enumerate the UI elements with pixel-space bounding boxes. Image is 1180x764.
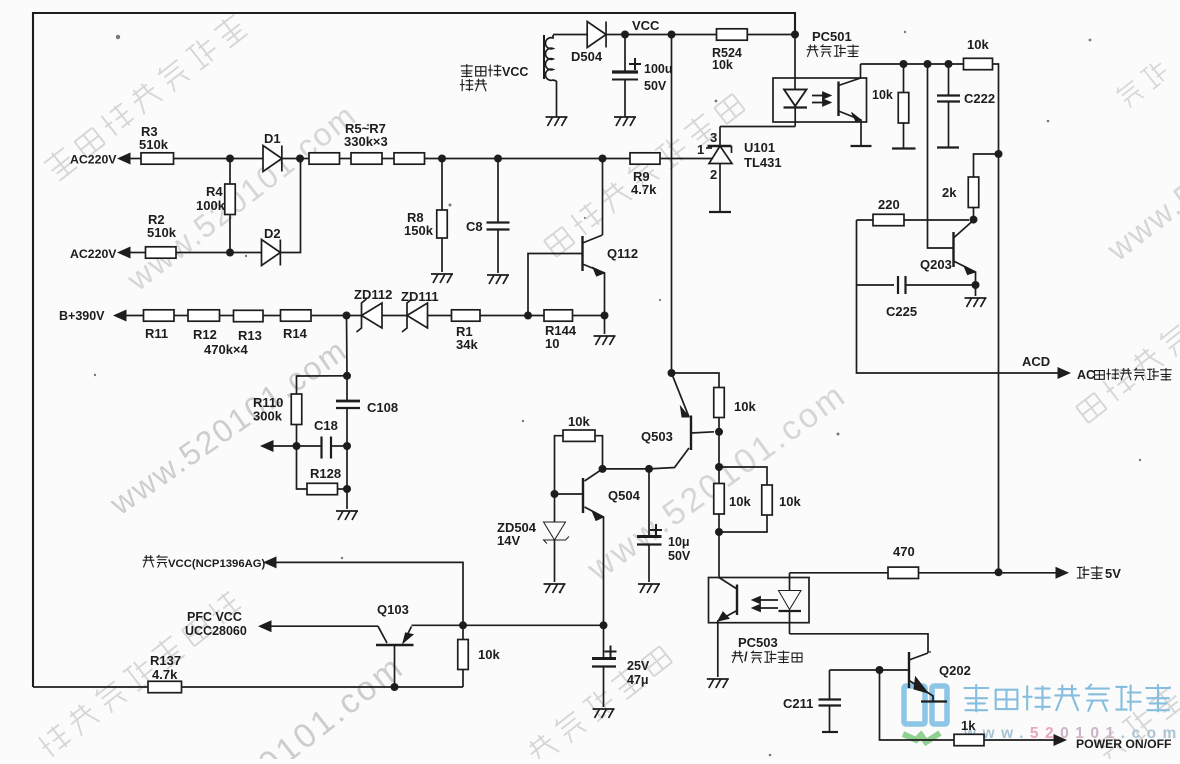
wire [718, 432, 720, 467]
wire 10k right down [595, 436, 603, 469]
resistor R14 [281, 310, 312, 321]
arrow AC220V top [117, 153, 131, 165]
resistor 10k vertical [898, 93, 909, 124]
label 保护光耦 (CJK) [807, 45, 859, 57]
transistor Q202 [880, 652, 934, 702]
wire to 25V cap [463, 624, 604, 626]
svg-text:47μ: 47μ [627, 673, 649, 687]
svg-text:D504: D504 [571, 49, 603, 64]
node VCC Q503 feed [668, 31, 676, 39]
svg-text:470k×4: 470k×4 [204, 342, 249, 357]
PC501 phototransistor [839, 64, 862, 146]
wire [263, 315, 281, 317]
node R3 R4 [226, 155, 234, 163]
svg-text:B+390V: B+390V [59, 309, 105, 323]
ground C8 [487, 275, 509, 284]
node D1 D2 join [296, 155, 304, 163]
wire ACD [857, 285, 1059, 373]
resistor R128 [307, 483, 338, 494]
ground R8 [431, 274, 453, 283]
svg-text:10k: 10k [568, 414, 590, 429]
resistor R4 [225, 184, 236, 215]
label 待机 (CJK) [1077, 566, 1102, 579]
wire [131, 158, 142, 160]
svg-text:POWER ON/OFF: POWER ON/OFF [1076, 737, 1171, 751]
arrow 待机5V [1056, 567, 1070, 579]
wire 2k to Q203 [973, 208, 975, 220]
resistor 220 [873, 214, 904, 225]
optocoupler PC503 box [709, 578, 810, 623]
svg-text:VCC: VCC [632, 18, 660, 33]
resistor 2k [968, 177, 979, 208]
arrow C18 output [260, 440, 274, 452]
logo book icon [904, 686, 947, 724]
arrow 背光VCC [263, 556, 277, 568]
PC503 phototransistor [718, 578, 737, 678]
node R4 R2 [226, 249, 234, 257]
svg-text:2k: 2k [942, 185, 957, 200]
wire 220 to Q203 collector [904, 219, 969, 221]
svg-text:14V: 14V [497, 533, 520, 548]
inductor winding coil [545, 35, 556, 81]
wire D1 out [282, 158, 309, 160]
wire VCC down rail [671, 35, 673, 374]
svg-text:Q504: Q504 [608, 488, 641, 503]
svg-text:470: 470 [893, 544, 915, 559]
label AC电压过低保护 (CJK) [1095, 368, 1172, 380]
svg-text:10k: 10k [779, 494, 801, 509]
node C108 top [343, 372, 351, 380]
svg-text:R4: R4 [206, 184, 223, 199]
wire to U101 cathode [719, 127, 721, 146]
capacitor C211 [819, 670, 842, 731]
node 25V cap [600, 621, 608, 629]
wire [428, 315, 452, 317]
resistor R3 [141, 153, 174, 164]
label 背光 (CJK) [143, 555, 167, 567]
wire R3 to D1 [174, 158, 264, 160]
terminal bar PC501 emitter [851, 145, 872, 147]
wire [229, 215, 231, 253]
ground 100u cap [614, 117, 636, 126]
wire [480, 315, 544, 317]
resistor R12 [188, 310, 220, 321]
wire to C225 [857, 220, 895, 285]
svg-text:ACD: ACD [1022, 354, 1050, 369]
wire to ground [604, 316, 606, 335]
node standby 5V [995, 568, 1003, 576]
arrow POWER ON/OFF [1054, 734, 1068, 746]
svg-text:U101: U101 [744, 140, 775, 155]
diode D2 [262, 240, 281, 266]
svg-text:4.7k: 4.7k [631, 182, 657, 197]
svg-text:C8: C8 [466, 219, 483, 234]
wire to C211 [830, 669, 880, 671]
wire [603, 468, 650, 470]
watermark 家电维修资料网 top-left [42, 12, 249, 183]
wire 10k left down [555, 436, 564, 494]
wire to R128 [297, 446, 308, 489]
resistor 10k Q504 [563, 430, 595, 441]
node Q112 base R144 [524, 312, 532, 320]
node Q203 base feed [924, 60, 932, 68]
ground ZD504 [544, 584, 566, 593]
svg-text:R11: R11 [145, 326, 168, 341]
wire C225 to emitter [906, 284, 976, 286]
wire R2 to D2 [176, 252, 262, 254]
svg-text:Q202: Q202 [939, 663, 971, 678]
ground winding [546, 117, 568, 126]
svg-text:ZD111: ZD111 [401, 289, 439, 304]
logo 家电维修资料网 teal text [964, 685, 1170, 712]
wire [718, 418, 720, 432]
wire [718, 467, 720, 484]
wire bottom left [33, 686, 148, 688]
svg-text:R14: R14 [283, 326, 308, 341]
wire [382, 315, 407, 317]
wire R7 to R9 [425, 158, 631, 160]
transistor Q112 [528, 159, 605, 316]
svg-text:50V: 50V [668, 549, 691, 563]
wire to R110 [297, 376, 348, 394]
wire VCC to PC501 LED [794, 35, 796, 90]
svg-text:330k×3: 330k×3 [344, 134, 388, 149]
svg-text:4.7k: 4.7k [152, 667, 178, 682]
node Q112 collector [599, 155, 607, 163]
node VCC cap junction [621, 31, 629, 39]
wire [220, 315, 234, 317]
resistor 10k right [762, 485, 773, 515]
svg-text:10k: 10k [478, 647, 500, 662]
svg-text:Q203: Q203 [920, 257, 952, 272]
watermark 家电维修资料网 right [1073, 322, 1180, 425]
ground 10u cap [638, 584, 660, 593]
zener ZD504 [544, 494, 570, 582]
arrow PFC VCC [258, 620, 272, 632]
wire [131, 252, 146, 254]
wire [573, 315, 605, 317]
svg-text:C108: C108 [367, 400, 398, 415]
wire to 10k right [719, 467, 767, 485]
zener ZD111 [402, 299, 428, 332]
svg-text:C225: C225 [886, 304, 917, 319]
diode D1 [263, 146, 282, 172]
logo green ribbon [903, 733, 940, 742]
wire PC501 LED to U101 [720, 126, 795, 128]
wire to 1k [880, 670, 955, 740]
resistor R9 [630, 153, 660, 164]
resistor R7 [394, 153, 425, 164]
wire bottom [182, 686, 464, 688]
capacitor 10u/50V [637, 469, 662, 582]
svg-text:Q503: Q503 [641, 429, 673, 444]
svg-text:50V: 50V [644, 79, 667, 93]
resistor 10k Q103 [458, 640, 469, 670]
watermark 家电维修资料网 bottom-left [35, 588, 244, 760]
wire VCC rail [606, 34, 717, 36]
label 开 (CJK) [732, 651, 743, 662]
svg-text:10k: 10k [712, 58, 733, 72]
diode D504 [587, 22, 606, 48]
node C18 C108 [343, 442, 351, 450]
terminal bar C222 [937, 146, 959, 148]
arrow ACD output [1058, 367, 1072, 379]
svg-text:C18: C18 [314, 418, 338, 433]
svg-text:R12: R12 [193, 327, 217, 342]
svg-text:10μ: 10μ [668, 535, 690, 549]
svg-text:2: 2 [710, 167, 717, 182]
svg-text:1k: 1k [961, 718, 976, 733]
svg-text:AC: AC [1077, 368, 1095, 382]
resistor R8 [437, 210, 448, 238]
node R110 bottom [293, 442, 301, 450]
wire to R8 [441, 159, 443, 211]
node R128 [343, 485, 351, 493]
zener ZD112 [357, 299, 383, 332]
wire [296, 425, 298, 447]
svg-text:3: 3 [710, 130, 717, 145]
svg-text:10k: 10k [872, 88, 893, 102]
wire right vertical rail [993, 64, 999, 572]
svg-text:UCC28060: UCC28060 [185, 624, 247, 638]
svg-text:TL431: TL431 [744, 155, 782, 170]
node Q504 base [551, 490, 559, 498]
arrow AC220V bottom [117, 247, 131, 259]
capacitor 100u/50V [612, 35, 641, 118]
resistor R137 [148, 681, 182, 692]
terminal bar Q202 emitter [921, 700, 947, 702]
wire [340, 158, 352, 160]
wire PFC VCC [272, 625, 379, 627]
ground Q203 emitter [965, 298, 987, 307]
wire [462, 670, 464, 688]
svg-text:R137: R137 [150, 653, 181, 668]
wire frame top/left border [33, 13, 795, 687]
wire 背光VCC [277, 562, 464, 625]
capacitor 25V/47u [592, 625, 617, 707]
wire [903, 123, 905, 149]
svg-text:510k: 510k [147, 225, 177, 240]
node 2k tap [995, 150, 1003, 158]
PC501 LED [784, 90, 808, 127]
svg-text:220: 220 [878, 197, 900, 212]
resistor R13 [234, 310, 264, 321]
ground 25V cap [593, 709, 615, 718]
svg-text:5V: 5V [1105, 566, 1121, 581]
resistor 10k Q503 [714, 388, 725, 418]
label 主电源 (CJK) [461, 64, 501, 77]
capacitor C108 [336, 376, 360, 509]
capacitor C8 [487, 159, 510, 274]
node B+ divider tap [343, 312, 351, 320]
transistor Q103 [376, 625, 463, 687]
node Q202 base [876, 666, 884, 674]
node Q503 base [715, 428, 723, 436]
svg-text:PC501: PC501 [812, 29, 852, 44]
svg-text:100u: 100u [644, 62, 673, 76]
node divider bottom [715, 528, 723, 536]
resistor 470 [888, 567, 919, 578]
wire [857, 219, 874, 221]
wire [382, 158, 394, 160]
svg-text:R13: R13 [238, 328, 262, 343]
PC501 light arrows [812, 93, 830, 106]
wire to PC503 [718, 532, 720, 578]
wire R14 to ZD112 [311, 315, 362, 317]
wire to 10k [672, 373, 720, 388]
wire [229, 159, 231, 185]
wire [338, 488, 348, 490]
label 绕组 (CJK) [460, 79, 486, 91]
svg-text:VCC: VCC [502, 65, 528, 79]
node VCC PC501 [791, 31, 799, 39]
node divider top [715, 463, 723, 471]
transistor Q503 (PNP) [649, 373, 714, 469]
svg-text:10: 10 [545, 336, 559, 351]
transistor Q203 [928, 64, 976, 296]
resistor 1k [954, 734, 984, 745]
resistor R524 [717, 29, 748, 40]
svg-text:C222: C222 [964, 91, 995, 106]
svg-text:VCC(NCP1396AG): VCC(NCP1396AG) [168, 558, 266, 570]
resistor R5 [309, 153, 340, 164]
svg-text:/: / [744, 649, 748, 664]
svg-text:300k: 300k [253, 409, 283, 424]
svg-text:34k: 34k [456, 337, 478, 352]
wire R8 to ground [441, 238, 443, 272]
wire [462, 625, 464, 639]
terminal bar 10k [892, 147, 916, 149]
wire [174, 315, 188, 317]
wire winding to ground [556, 81, 558, 117]
wire [127, 315, 144, 317]
wire 1k to arrow [984, 739, 1054, 741]
wire [903, 64, 905, 93]
svg-text:R128: R128 [310, 466, 341, 481]
ground C108 R128 [336, 511, 358, 520]
watermark 家电维修资料网 bottom-center [524, 642, 674, 764]
watermark 家电 bottom-right [1092, 684, 1180, 764]
wire PC501 collector rail [861, 63, 964, 65]
node Q503 emitter [668, 369, 676, 377]
svg-text:C211: C211 [783, 696, 813, 711]
resistor R6 [351, 153, 382, 164]
label 待机光耦 (CJK) [751, 651, 802, 663]
terminal bar C211 [822, 731, 838, 733]
resistor R11 [144, 310, 175, 321]
resistor R2 [146, 247, 177, 258]
PC503 light arrows [753, 597, 778, 611]
ground Q112 emitter [594, 336, 616, 345]
node 10u cap [645, 465, 653, 473]
svg-text:100k: 100k [196, 198, 226, 213]
svg-text:10k: 10k [734, 399, 756, 414]
node C8 [494, 155, 502, 163]
resistor R110 [291, 394, 302, 425]
regulator U101 TL431 [706, 146, 732, 212]
PC503 LED [779, 573, 802, 634]
svg-text:25V: 25V [627, 659, 650, 673]
wire [719, 515, 767, 532]
svg-text:PFC VCC: PFC VCC [187, 610, 242, 624]
wire B+ tap down [346, 316, 349, 376]
svg-text:D1: D1 [264, 131, 281, 146]
wire to 2k [974, 154, 999, 177]
svg-text:510k: 510k [139, 137, 169, 152]
resistor R1 [452, 310, 481, 321]
capacitor C18 [297, 437, 348, 459]
svg-text:ZD112: ZD112 [354, 287, 392, 302]
wire R9 to U101 [660, 158, 712, 160]
terminal bar U101 anode [709, 211, 731, 213]
node Q103 base bottom [391, 683, 399, 691]
svg-text:150k: 150k [404, 223, 434, 238]
resistor 10k left [714, 484, 725, 515]
svg-text:Q112: Q112 [607, 246, 638, 261]
optocoupler PC501 box [773, 78, 867, 122]
node C222 [945, 60, 953, 68]
watermark 资料 top-right corner [1114, 57, 1171, 109]
ground PC503 emitter [707, 679, 729, 688]
wire R524 to PC501 [747, 34, 795, 36]
wire D2 to D1 node [281, 159, 301, 253]
svg-text:AC220V: AC220V [70, 153, 117, 167]
svg-text:10k: 10k [729, 494, 751, 509]
svg-text:D2: D2 [264, 226, 281, 241]
capacitor C222 [937, 64, 960, 148]
wire [718, 514, 720, 532]
wire 470 to arrow [919, 572, 1057, 574]
wire PC503 LED to Q202 [790, 634, 929, 653]
node R8 [438, 155, 446, 163]
node Q112 emitter [601, 312, 609, 320]
wire winding to D504 [553, 34, 587, 36]
resistor R144 [544, 310, 573, 321]
svg-text:10k: 10k [967, 37, 989, 52]
wire PC503 to 470 [790, 572, 889, 574]
node Q203 collector [970, 216, 978, 224]
watermark 家电维修资料网 top-middle [541, 90, 747, 259]
transistor Q504 [555, 469, 604, 625]
arrow B+390V [113, 310, 127, 322]
wire [274, 445, 297, 447]
resistor 10k top right [964, 58, 993, 69]
svg-text:AC220V: AC220V [70, 247, 117, 261]
svg-text:PC503: PC503 [738, 635, 778, 650]
svg-text:1: 1 [697, 142, 704, 157]
node C225 emitter [972, 281, 980, 289]
node Q103 emitter [459, 621, 467, 629]
svg-text:Q103: Q103 [377, 602, 409, 617]
node Q504 collector [599, 465, 607, 473]
winding 主电源VCC core bar [543, 35, 545, 79]
node 10k pulldown [900, 60, 908, 68]
